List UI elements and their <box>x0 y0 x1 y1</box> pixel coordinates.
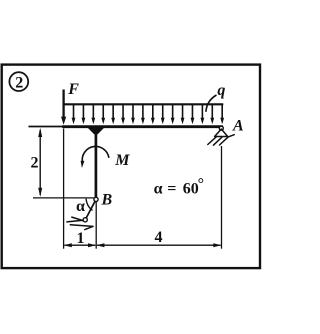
dimension 2 arrow line <box>38 128 42 197</box>
svg-text:60: 60 <box>183 181 199 198</box>
vertical bar (column) <box>95 128 98 197</box>
label 1 <box>77 230 85 247</box>
support A ground hatching <box>208 135 234 146</box>
dimension 2 extension line at B level <box>33 197 94 199</box>
beam-left extension line <box>29 126 64 128</box>
frame border <box>2 65 260 269</box>
svg-text:F: F <box>67 81 79 98</box>
label A <box>232 117 244 134</box>
label B <box>101 192 113 209</box>
distributed load q top line <box>63 103 224 105</box>
support A pin circle <box>219 126 223 130</box>
rigid joint triangle on beam <box>88 128 104 134</box>
label M <box>114 152 130 169</box>
svg-text:α: α <box>76 198 85 215</box>
svg-text:M: M <box>114 152 130 169</box>
svg-text:q: q <box>217 82 225 99</box>
svg-text:=: = <box>167 180 176 197</box>
svg-text:A: A <box>232 117 244 134</box>
svg-text:α: α <box>154 181 163 198</box>
extension line below B <box>95 202 97 249</box>
rod lower hinge circle <box>83 218 87 222</box>
label q <box>217 82 225 99</box>
support A triangle <box>215 129 228 137</box>
svg-text:4: 4 <box>155 229 163 246</box>
support rod from B <box>86 201 95 218</box>
svg-text:2: 2 <box>15 75 23 92</box>
force F arrow <box>61 90 66 125</box>
label alpha equals 60 deg <box>154 176 204 198</box>
extension line below A <box>221 146 223 249</box>
svg-text:2: 2 <box>31 155 39 172</box>
svg-text:1: 1 <box>77 230 85 247</box>
svg-text:°: ° <box>198 176 204 193</box>
dimension line 4 <box>96 243 221 247</box>
label 2 <box>31 155 39 172</box>
hinge B circle <box>94 197 98 201</box>
label alpha <box>76 198 85 215</box>
angle alpha arc at B <box>86 199 93 211</box>
svg-text:B: B <box>101 192 113 209</box>
beam <box>62 125 223 128</box>
dimension line 1 <box>64 243 97 247</box>
distributed load arrows <box>62 105 224 124</box>
problem number badge 2 <box>9 72 28 91</box>
q leader line <box>206 95 217 112</box>
extension line below F <box>63 129 65 249</box>
label F <box>67 81 79 98</box>
label 4 <box>155 229 163 246</box>
rod anchor hatching <box>67 217 93 230</box>
moment M arc arrow <box>81 146 109 168</box>
